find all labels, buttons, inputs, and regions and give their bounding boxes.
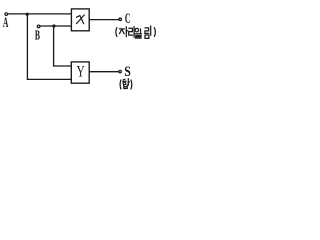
gate box X bbox=[71, 9, 89, 31]
hangul 리 bbox=[129, 28, 133, 35]
wire B middle horizontal to gate Y bbox=[54, 65, 72, 67]
caption (자리올림) carry bbox=[116, 26, 156, 39]
svg-text:C: C bbox=[125, 12, 130, 27]
svg-text:Y: Y bbox=[77, 64, 85, 81]
svg-text:S: S bbox=[124, 63, 131, 80]
paren ) bbox=[130, 80, 133, 89]
gate box Y bbox=[71, 62, 89, 83]
input terminal A bbox=[5, 13, 8, 16]
hangul 자 bbox=[119, 28, 124, 30]
junction dot on wire A bbox=[26, 13, 29, 16]
hangul 림 bbox=[145, 28, 149, 34]
wire B horizontal bbox=[40, 25, 71, 27]
hangul 올 bbox=[135, 28, 139, 32]
paren ) bbox=[154, 28, 155, 37]
output terminal C bbox=[119, 18, 122, 21]
symbol X inside top gate box bbox=[76, 15, 84, 24]
wire B vertical branch bbox=[53, 26, 55, 66]
wire A bottom horizontal to gate Y bbox=[27, 78, 71, 80]
wire A horizontal bbox=[8, 13, 72, 15]
wire output C bbox=[89, 19, 119, 21]
wire output S bbox=[89, 71, 119, 73]
caption (합) sum bbox=[120, 79, 132, 89]
paren ( bbox=[116, 28, 117, 37]
hangul 합 bbox=[123, 78, 125, 81]
output terminal S bbox=[119, 70, 121, 72]
paren ( bbox=[119, 80, 122, 89]
svg-text:B: B bbox=[35, 28, 40, 43]
wire A vertical branch bbox=[26, 14, 28, 79]
svg-text:A: A bbox=[3, 16, 9, 31]
input terminal B bbox=[37, 25, 40, 28]
junction dot on wire B bbox=[52, 24, 55, 27]
